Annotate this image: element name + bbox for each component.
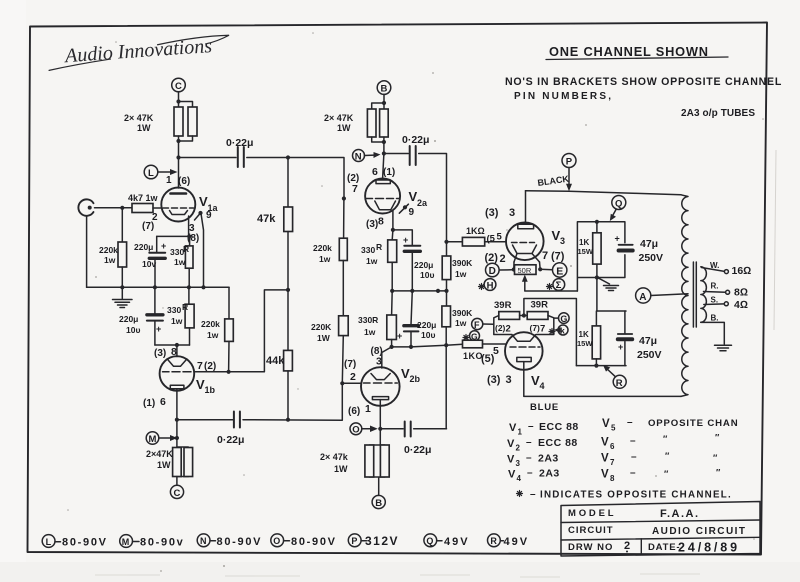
svg-text:(3): (3) [485, 207, 499, 219]
resistor 220k (stage2 lower) [339, 316, 349, 336]
svg-text:1w: 1w [455, 269, 467, 279]
upper bias network box [577, 222, 625, 291]
svg-text:2a: 2a [417, 198, 428, 208]
svg-text:BLUE: BLUE [530, 402, 559, 413]
svg-text:″: ″ [713, 453, 718, 463]
svg-text:1b: 1b [205, 385, 216, 395]
svg-text:–: – [526, 453, 532, 464]
svg-text:4k7 1w: 4k7 1w [128, 193, 159, 203]
svg-text:1w: 1w [174, 257, 186, 267]
svg-text:220μ: 220μ [414, 260, 433, 270]
svg-text:330: 330 [167, 305, 181, 315]
svg-text:R.: R. [711, 282, 719, 291]
wire BLACK rail [526, 191, 682, 195]
capacitor 220u 10V (stage1 lower) [154, 287, 156, 314]
svg-text:G: G [560, 314, 567, 324]
svg-text:AUDIO CIRCUIT: AUDIO CIRCUIT [652, 526, 746, 537]
svg-text:R: R [376, 242, 382, 252]
svg-text:–: – [630, 436, 636, 447]
svg-text:220k: 220k [313, 243, 332, 253]
jack shield down [86, 216, 88, 287]
chain 390K x=446.5 [444, 240, 448, 244]
svg-text:V: V [601, 469, 609, 481]
wire jack to grid resistor [95, 207, 133, 209]
svg-text:Q: Q [426, 536, 433, 546]
svg-text:P: P [351, 536, 357, 546]
svg-text:220k: 220k [201, 319, 220, 329]
svg-text:2: 2 [350, 371, 356, 383]
svg-text:″: ″ [665, 451, 670, 461]
wire C to resistors [178, 92, 180, 107]
anode riser V3 [525, 191, 527, 223]
cathode V1a wire [188, 216, 190, 236]
resistor 220k 1W (stage1 lower right) [228, 287, 230, 319]
svg-text:80-90v: 80-90v [140, 536, 184, 548]
ground (bias) [598, 278, 610, 284]
capacitor 47u 250V (lower) [624, 311, 626, 333]
svg-text:2× 47K: 2× 47K [324, 113, 354, 123]
terminal P value [348, 534, 361, 547]
anode node line to 1KO [392, 345, 447, 347]
wire pin9 to ground bus [201, 214, 204, 288]
secondary winding [701, 267, 707, 323]
terminal N [353, 150, 365, 162]
svg-text:10v: 10v [142, 259, 156, 269]
G* circle [470, 331, 480, 341]
svg-text:250V: 250V [639, 252, 664, 264]
svg-text:(3): (3) [366, 219, 378, 230]
svg-text:+: + [397, 331, 402, 341]
svg-text:7: 7 [540, 324, 545, 335]
svg-text:+: + [156, 324, 161, 334]
svg-text:(7): (7) [142, 221, 154, 232]
svg-text:7: 7 [197, 360, 203, 372]
svg-text:–: – [527, 468, 533, 479]
svg-text:80-90V: 80-90V [217, 536, 263, 548]
core [693, 262, 696, 327]
svg-text:2A3 o/p TUBES: 2A3 o/p TUBES [681, 108, 755, 119]
wire cap to V2a grid corner [247, 158, 344, 199]
capacitor 47u 250V (upper) [619, 244, 633, 246]
resistor 1KO grid V4 [446, 343, 462, 346]
svg-text:3: 3 [560, 236, 565, 246]
H circle [484, 279, 496, 291]
terminal O [350, 423, 362, 435]
svg-text:24/8/89: 24/8/89 [678, 541, 740, 555]
svg-text:F.A.A.: F.A.A. [660, 508, 700, 520]
svg-text:–: – [528, 421, 534, 432]
svg-text:47μ: 47μ [639, 335, 657, 347]
svg-text:D: D [489, 266, 496, 277]
svg-text:(6): (6) [178, 176, 190, 187]
svg-text:P: P [566, 157, 573, 168]
resistor 330R 1W (stage1 lower) [188, 287, 190, 304]
pin 9 V1a [198, 211, 202, 215]
wire cathode to output resistors [176, 420, 178, 447]
svg-text:312V: 312V [365, 534, 399, 548]
tube V1b [160, 356, 195, 391]
heater bracket left V4 [494, 316, 512, 335]
svg-text:220k: 220k [99, 245, 118, 255]
anode V2b up [382, 347, 392, 368]
svg-text:MODEL: MODEL [568, 508, 616, 519]
terminal C top [172, 78, 186, 92]
svg-text:8Ω: 8Ω [734, 287, 748, 299]
svg-text:C: C [175, 81, 182, 92]
svg-text:0·22μ: 0·22μ [402, 134, 429, 146]
tube V2b [361, 367, 400, 406]
svg-text:39R: 39R [494, 300, 512, 311]
svg-text:4: 4 [540, 381, 545, 391]
svg-text:1W: 1W [157, 460, 171, 470]
svg-text:6: 6 [160, 396, 166, 408]
svg-text:–: – [526, 437, 532, 448]
svg-text:1W: 1W [137, 123, 151, 133]
svg-text:39R: 39R [531, 300, 549, 311]
svg-text:2×47K: 2×47K [146, 449, 173, 459]
svg-text:(3): (3) [487, 374, 501, 386]
svg-text:220μ: 220μ [134, 242, 153, 252]
ground [121, 287, 123, 298]
svg-text:2b: 2b [410, 374, 421, 384]
svg-text:R: R [183, 244, 189, 254]
svg-text:49V: 49V [504, 536, 530, 548]
svg-text:ONE CHANNEL SHOWN: ONE CHANNEL SHOWN [549, 44, 709, 59]
grid wire V1b to 44k chain [194, 290, 288, 372]
svg-text:15W: 15W [578, 247, 594, 256]
capacitor 0.22u (stage1 out) [234, 412, 240, 428]
svg-text:4: 4 [517, 474, 522, 483]
capacitor 0.22u (stage1 top) [238, 147, 244, 167]
svg-text:9: 9 [409, 207, 415, 218]
svg-text:C: C [174, 488, 181, 499]
svg-text:F: F [474, 320, 480, 330]
svg-text:ECC 88: ECC 88 [539, 421, 579, 433]
svg-text:(1): (1) [383, 167, 395, 178]
svg-text:(6): (6) [348, 406, 360, 417]
svg-text:Q: Q [615, 199, 622, 210]
svg-text:1: 1 [518, 428, 523, 437]
svg-text:(2): (2) [485, 252, 499, 264]
svg-text:220K: 220K [311, 322, 332, 332]
wire to coupling cap 0.22u (stage1 out) [177, 419, 233, 421]
svg-text:H: H [487, 280, 494, 291]
svg-text:O: O [273, 536, 280, 546]
svg-text:220μ: 220μ [417, 320, 436, 330]
terminal N value [197, 534, 210, 547]
cathode V1b down [176, 389, 178, 420]
cathode node line [157, 235, 190, 237]
wiper 50R to bias [525, 278, 578, 292]
svg-text:1K: 1K [579, 238, 589, 247]
F circle [472, 318, 483, 329]
wire cap to V2b grid riser [243, 383, 342, 420]
svg-text:1: 1 [166, 175, 172, 186]
D circle [499, 269, 514, 271]
svg-text:2: 2 [500, 253, 506, 265]
terminal Q value [424, 534, 437, 547]
wire L arrow to grid [158, 171, 175, 173]
tube V2a [365, 179, 400, 214]
svg-text:+: + [615, 234, 620, 244]
cathode V2a node [392, 211, 394, 230]
svg-text:A: A [639, 292, 646, 303]
svg-text:220μ: 220μ [119, 314, 138, 324]
svg-text:2A3: 2A3 [539, 468, 560, 480]
svg-text:(5: (5 [487, 234, 496, 245]
svg-text:R: R [490, 536, 497, 546]
terminal M [146, 432, 159, 445]
capacitor 220u (stage2 lower) [411, 291, 412, 325]
tube V1a [161, 188, 195, 222]
heater bracket right V4 [536, 316, 554, 335]
svg-text:0·22μ: 0·22μ [217, 434, 244, 446]
svg-text:S.: S. [711, 296, 719, 305]
svg-text:CIRCUIT: CIRCUIT [568, 525, 614, 536]
svg-text:1KO: 1KO [463, 351, 483, 361]
svg-text:2A3: 2A3 [538, 453, 559, 465]
resistor 2x47K 1W (top left pair) [174, 107, 183, 136]
svg-text:+: + [403, 235, 408, 245]
svg-text:330: 330 [361, 245, 375, 255]
svg-text:3: 3 [509, 207, 515, 219]
svg-text:10υ: 10υ [421, 330, 435, 340]
svg-text:5: 5 [493, 345, 499, 357]
resistor 44k [287, 290, 289, 351]
svg-text:k: k [560, 326, 565, 336]
svg-text:–: – [630, 468, 636, 479]
svg-text:5: 5 [611, 424, 616, 433]
svg-text:1w: 1w [207, 330, 219, 340]
E circle [540, 268, 552, 271]
svg-text:(3): (3) [154, 348, 166, 359]
svg-text:W.: W. [710, 261, 719, 270]
wire to coupling cap [179, 157, 237, 159]
svg-text:2: 2 [624, 540, 630, 552]
svg-text:R: R [182, 302, 188, 312]
filament pins V3 to 50R [514, 262, 540, 270]
svg-text:7: 7 [352, 183, 358, 195]
svg-text:ECC 88: ECC 88 [538, 437, 578, 449]
svg-text:10υ: 10υ [126, 325, 140, 335]
capacitor 220u 10V (stage1 upper) [156, 236, 158, 252]
E2 circle [553, 279, 565, 291]
svg-text:4Ω: 4Ω [734, 299, 748, 311]
svg-text:250V: 250V [637, 349, 662, 361]
resistor 1K 15W (upper) [596, 222, 598, 233]
ground bus stage1 [87, 286, 229, 288]
terminal O value [271, 534, 284, 547]
resistor 4k7 1W [132, 204, 153, 213]
svg-text:1w: 1w [104, 255, 116, 265]
link to lower network [596, 278, 598, 312]
svg-text:V: V [507, 438, 515, 450]
svg-text:1w: 1w [319, 254, 331, 264]
svg-text:1w: 1w [366, 256, 378, 266]
cathode V2b down [379, 400, 381, 429]
stage2 bus [392, 290, 446, 292]
svg-text:80-90V: 80-90V [62, 536, 108, 548]
resistor 39R left [499, 312, 520, 320]
svg-text:V: V [601, 437, 609, 449]
resistor 330R (stage2 upper) [391, 230, 394, 240]
svg-text:+: + [618, 342, 623, 352]
svg-text:NO'S IN BRACKETS SHOW OPPOSITE: NO'S IN BRACKETS SHOW OPPOSITE CHANNEL [505, 76, 782, 88]
node plate V1a [176, 155, 180, 159]
svg-text:49V: 49V [444, 536, 470, 548]
svg-text:1w: 1w [364, 327, 376, 337]
svg-text:50R: 50R [518, 266, 532, 275]
svg-text:2: 2 [516, 444, 521, 453]
anode V4 down / BLUE rail [524, 362, 681, 397]
terminal P [562, 154, 576, 168]
svg-text:M: M [122, 537, 130, 547]
terminal L [144, 165, 158, 179]
svg-text:8: 8 [610, 474, 615, 483]
svg-text:1K: 1K [579, 330, 589, 339]
svg-text:L: L [148, 168, 154, 179]
svg-text:1W: 1W [337, 123, 351, 133]
svg-text:″: ″ [663, 434, 668, 444]
svg-text:″: ″ [715, 433, 720, 443]
svg-text:5: 5 [497, 232, 503, 243]
tube V4 [505, 332, 543, 370]
svg-text:O: O [352, 425, 359, 436]
capacitor 0.22u (stage2 top) [410, 146, 416, 165]
svg-text:L: L [46, 537, 52, 547]
svg-text:DATE-: DATE- [648, 542, 680, 553]
resistor 390K 1w (lower) [446, 291, 448, 306]
svg-text:0·22μ: 0·22μ [404, 444, 431, 456]
svg-text:M: M [149, 434, 157, 445]
svg-text:0·22μ: 0·22μ [226, 137, 253, 149]
svg-text:(7): (7) [344, 359, 356, 370]
resistor 39R right [527, 312, 548, 320]
svg-text:15W: 15W [577, 339, 593, 348]
svg-text:47μ: 47μ [640, 238, 658, 250]
svg-text:9: 9 [206, 210, 212, 221]
wire plate down to V2a [383, 154, 384, 179]
primary winding [681, 195, 688, 397]
svg-text:6: 6 [372, 166, 378, 178]
svg-text:–: – [631, 452, 637, 463]
svg-text:1W: 1W [334, 464, 348, 474]
terminal C bottom [170, 485, 183, 498]
lower bias network [576, 311, 626, 366]
svg-text:V: V [601, 453, 609, 465]
tube V3 [506, 223, 544, 263]
node plate V2a [382, 151, 386, 155]
svg-text:(1): (1) [143, 398, 155, 409]
svg-text:OPPOSITE CHAN: OPPOSITE CHAN [648, 418, 738, 429]
svg-text:INDICATES OPPOSITE CHANNEL.: INDICATES OPPOSITE CHANNEL. [540, 490, 732, 501]
svg-text:330R: 330R [358, 315, 378, 325]
resistor 1K ohm grid V3 [447, 241, 463, 243]
svg-text:(7): (7) [551, 251, 565, 263]
pin 9 V2a [403, 205, 407, 209]
svg-text:–: – [530, 489, 536, 500]
svg-text:+: + [161, 241, 166, 251]
svg-text:2: 2 [506, 324, 511, 335]
svg-text:1w: 1w [455, 318, 467, 328]
svg-text:7: 7 [610, 458, 615, 467]
resistor 2x47K 1W (bottom left pair) [177, 447, 188, 477]
svg-text:N: N [355, 151, 362, 162]
svg-text:390K: 390K [452, 258, 473, 268]
svg-text:V: V [509, 422, 517, 434]
svg-text:1KΩ: 1KΩ [466, 226, 485, 236]
anode node V1b [155, 344, 190, 346]
taps [702, 268, 725, 272]
svg-text:R: R [616, 378, 623, 389]
resistor 2x47K (stage2 bottom pair) [369, 429, 385, 496]
svg-text:E: E [556, 265, 563, 277]
terminal B top [377, 81, 391, 95]
svg-text:47k: 47k [257, 213, 276, 225]
resistor 47k [287, 158, 289, 208]
svg-text:B.: B. [711, 314, 719, 323]
input jack [78, 199, 93, 215]
capacitor 220u (stage2 upper) [404, 245, 420, 247]
svg-text:1w: 1w [171, 316, 183, 326]
svg-text:″: ″ [664, 469, 669, 479]
resistor 330R 1W (stage1 upper) [189, 236, 191, 246]
terminal L value [42, 535, 55, 548]
terminal B bottom [372, 495, 385, 508]
svg-text:B: B [375, 498, 382, 509]
svg-text:10υ: 10υ [420, 270, 434, 280]
svg-text:–: – [627, 417, 633, 428]
G circle right [559, 313, 570, 324]
svg-text:2× 47K: 2× 47K [124, 113, 154, 123]
svg-text:(2): (2) [204, 361, 216, 372]
svg-text:″: ″ [716, 468, 721, 478]
terminal R value [488, 534, 501, 547]
svg-text:(2): (2) [495, 323, 506, 333]
wire to cap 0.22u (stage2) [384, 153, 408, 155]
note indicates opposite channel [517, 491, 523, 497]
resistor 330R (stage2 lower) [391, 291, 394, 315]
svg-text:PIN NUMBERS,: PIN NUMBERS, [514, 91, 613, 102]
rail to lower bias network [524, 299, 577, 366]
svg-text:1W: 1W [317, 333, 331, 343]
pot 50R [515, 265, 537, 275]
terminal A + tap [636, 288, 651, 303]
resistor 220k (stage2 upper) [343, 199, 345, 239]
ground secondary [715, 345, 732, 350]
terminal M value [120, 535, 133, 548]
signature Audio Innovations [47, 34, 230, 71]
svg-text:3: 3 [506, 374, 512, 386]
resistor 220k 1W (input) [121, 208, 123, 242]
svg-text:6: 6 [610, 442, 615, 451]
svg-text:16Ω: 16Ω [732, 265, 752, 277]
resistor 2x47K 1W (stage2 top pair) [367, 109, 376, 137]
svg-text:V: V [507, 454, 515, 466]
svg-text:Σ: Σ [556, 280, 562, 291]
resistor 1K 15W (lower) [595, 311, 597, 326]
svg-text:7: 7 [542, 250, 548, 262]
svg-text:N: N [200, 536, 207, 546]
svg-text:B: B [381, 84, 388, 95]
svg-text:(7): (7) [530, 323, 541, 333]
K* circle [558, 325, 568, 335]
svg-text:2× 47k: 2× 47k [320, 452, 349, 462]
terminal Q [612, 196, 626, 210]
wire plate down to V1a [178, 158, 180, 189]
svg-text:44k: 44k [266, 355, 285, 367]
svg-text:V: V [602, 418, 610, 430]
